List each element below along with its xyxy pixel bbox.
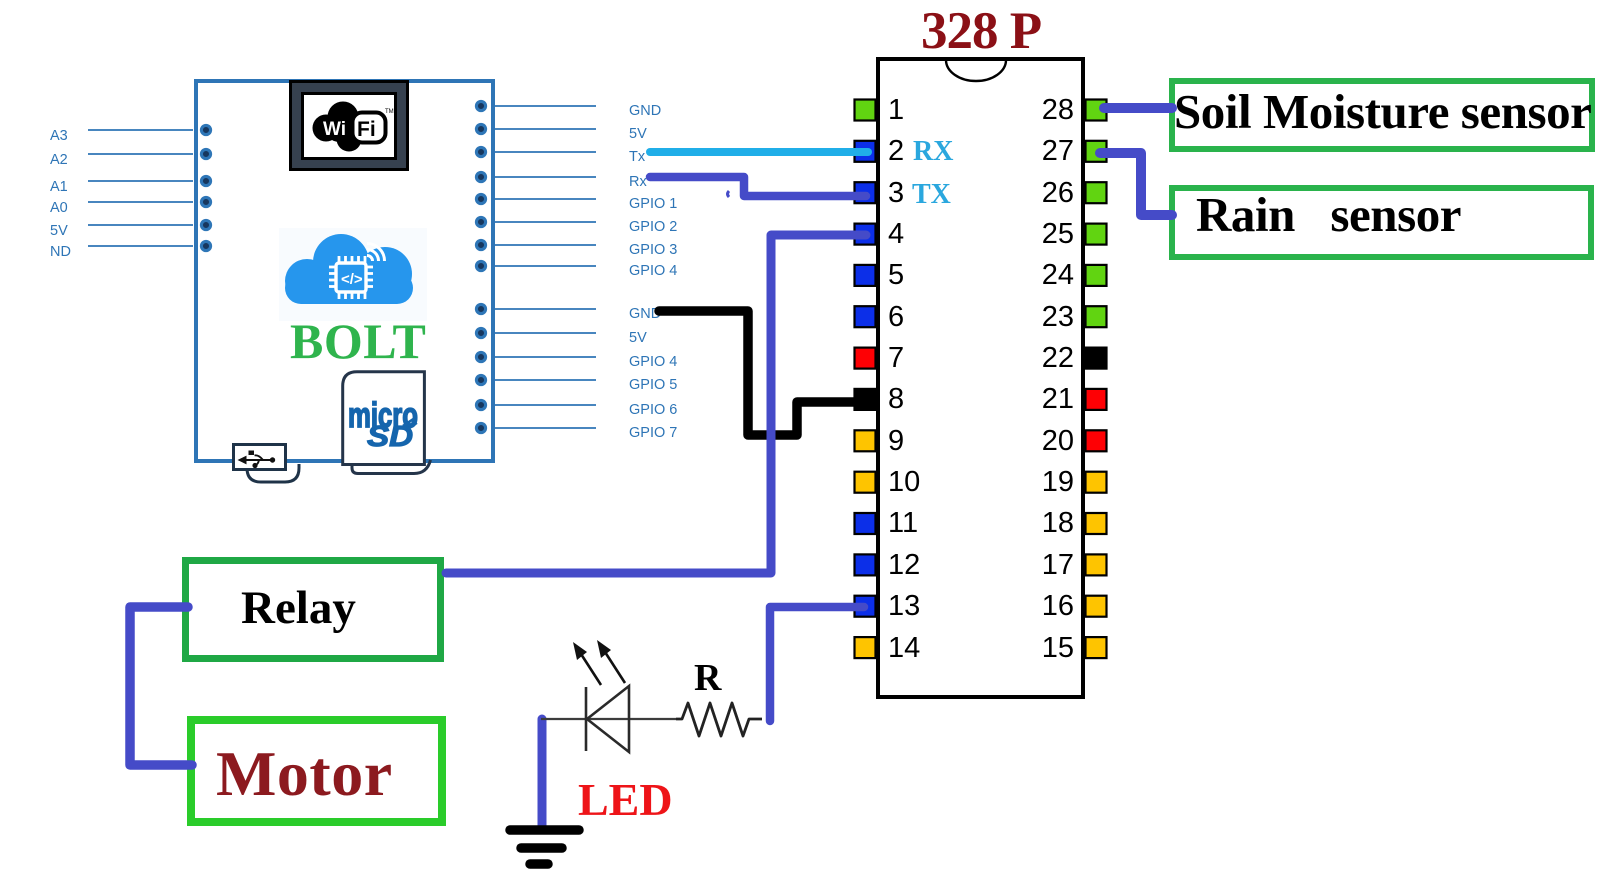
wire GND (black) board to pin 8 <box>659 311 858 435</box>
pin 22 pad <box>1086 348 1107 369</box>
pin 4 number <box>888 219 904 250</box>
pin circle A1 <box>201 176 210 185</box>
label 5V (board right) <box>629 127 647 142</box>
pin circle GPIO 3 <box>476 240 485 249</box>
label GPIO 7 (board right) <box>629 426 677 441</box>
Rain sensor text <box>1196 186 1461 243</box>
wire lead ND (board left) <box>88 245 193 247</box>
pin circle GND <box>476 304 485 313</box>
label 5V (board left) <box>50 224 68 239</box>
pin 15 number <box>1004 633 1074 664</box>
pin 10 pad <box>855 472 876 493</box>
pin circle GPIO 7 <box>476 423 485 432</box>
pin circle GPIO 5 <box>476 375 485 384</box>
pin circle ND <box>201 241 210 250</box>
label GND (board right) <box>629 307 661 322</box>
wire lead GND (board right) <box>492 105 596 107</box>
wire pin 28 to Soil Moisture sensor <box>1104 103 1172 113</box>
LED triangle <box>587 686 629 752</box>
pin 28 pad <box>1086 100 1107 121</box>
LED arrow 1 <box>581 654 601 685</box>
pin 16 pad <box>1086 596 1107 617</box>
pin 20 pad <box>1086 430 1107 451</box>
pin 2 number <box>888 136 904 167</box>
wire tick mark <box>728 191 730 197</box>
pin 14 pad <box>855 637 876 658</box>
pin 6 number <box>888 302 904 333</box>
pin circle GND <box>476 101 485 110</box>
pin circle GPIO 2 <box>476 217 485 226</box>
pin 27 pad <box>1086 141 1107 162</box>
label GPIO 5 (board right) <box>629 378 677 393</box>
pin 4 pad <box>855 224 876 245</box>
label RX <box>913 136 953 168</box>
pin 23 pad <box>1086 306 1107 327</box>
R text <box>694 656 721 700</box>
pin circle GPIO 6 <box>476 400 485 409</box>
microSD card <box>330 365 445 490</box>
pin 16 number <box>1004 591 1074 622</box>
wire lead GPIO 6 (board right) <box>492 404 596 406</box>
Rain sensor box <box>1169 185 1594 260</box>
pin 3 number <box>888 178 904 209</box>
pin 21 number <box>1004 384 1074 415</box>
pin 8 pad <box>855 389 876 410</box>
label GND (board right) <box>629 104 661 119</box>
wire lead 5V (board left) <box>88 224 193 226</box>
pin 27 number <box>1004 136 1074 167</box>
pin 6 pad <box>855 306 876 327</box>
resistor R <box>676 703 762 736</box>
Soil Moisture sensor box <box>1169 78 1595 152</box>
wire Tx (cyan) board to pin 2 <box>650 148 868 156</box>
pin 11 number <box>888 508 918 539</box>
wire lead A0 (board left) <box>88 201 193 203</box>
label GPIO 1 (board right) <box>629 197 677 212</box>
pin 25 number <box>1004 219 1074 250</box>
wire pin 4 to Relay <box>446 235 866 573</box>
pin 13 number <box>888 591 920 622</box>
pin 23 number <box>1004 302 1074 333</box>
Relay text <box>241 581 356 635</box>
BOLT module board outline <box>194 79 495 463</box>
pin 10 number <box>888 467 920 498</box>
label Tx (board right) <box>629 150 645 165</box>
pin 22 number <box>1004 343 1074 374</box>
WiFi module frame <box>289 80 409 171</box>
wire pin 13 to resistor <box>770 607 864 721</box>
pin 14 number <box>888 633 920 664</box>
pin 12 number <box>888 550 920 581</box>
pin circle A3 <box>201 125 210 134</box>
pin 9 number <box>888 426 904 457</box>
label GPIO 4 (board right) <box>629 264 677 279</box>
wire pin 27 to Rain sensor <box>1100 153 1172 215</box>
wire lead GPIO 4 (board right) <box>492 265 596 267</box>
LED text <box>578 773 673 826</box>
label Rx (board right) <box>629 175 647 190</box>
Relay box <box>182 557 444 662</box>
Soil Moisture sensor text <box>1174 83 1591 140</box>
pin 17 pad <box>1086 554 1107 575</box>
label GPIO 4 (board right) <box>629 355 677 370</box>
wire lead GPIO 7 (board right) <box>492 427 596 429</box>
label ND (board left) <box>50 245 71 260</box>
wire lead GPIO 2 (board right) <box>492 221 596 223</box>
pin circle A0 <box>201 197 210 206</box>
pin 24 pad <box>1086 265 1107 286</box>
pin 17 number <box>1004 550 1074 581</box>
BOLT wordmark <box>290 312 426 370</box>
wire lead Tx (board right) <box>492 151 596 153</box>
pin 19 number <box>1004 467 1074 498</box>
pin circle A2 <box>201 149 210 158</box>
pin circle 5V <box>201 220 210 229</box>
label A2 (board left) <box>50 153 68 168</box>
USB connector icon <box>225 438 310 490</box>
label GPIO 2 (board right) <box>629 220 677 235</box>
wire lead A1 (board left) <box>88 180 193 182</box>
wire lead A3 (board left) <box>88 129 193 131</box>
pin 1 pad <box>855 100 876 121</box>
wire lead 5V (board right) <box>492 128 596 130</box>
Motor text <box>216 737 393 811</box>
label TX <box>912 179 951 211</box>
pin 18 pad <box>1086 513 1107 534</box>
pin 8 number <box>888 384 904 415</box>
pin circle GPIO 4 <box>476 261 485 270</box>
pin circle Rx <box>476 172 485 181</box>
LED cathode bar <box>585 687 588 751</box>
pin circle GPIO 4 <box>476 352 485 361</box>
wire lead GPIO 5 (board right) <box>492 379 596 381</box>
wire lead A2 (board left) <box>88 153 193 155</box>
pin 7 pad <box>855 348 876 369</box>
wire lead GND (board right) <box>492 308 596 310</box>
LED arrow 2 <box>605 652 625 683</box>
pin 13 pad <box>855 596 876 617</box>
ground symbol <box>510 830 579 864</box>
pin 15 pad <box>1086 637 1107 658</box>
pin 21 pad <box>1086 389 1107 410</box>
pin circle 5V <box>476 328 485 337</box>
LED lead line <box>541 718 676 720</box>
pin 19 pad <box>1086 472 1107 493</box>
wire lead Rx (board right) <box>492 176 596 178</box>
pin 12 pad <box>855 554 876 575</box>
pin 5 pad <box>855 265 876 286</box>
pin 20 number <box>1004 426 1074 457</box>
wire LED cathode to ground <box>538 719 547 828</box>
pin 25 pad <box>1086 224 1107 245</box>
pin 24 number <box>1004 260 1074 291</box>
label A1 (board left) <box>50 180 68 195</box>
pin circle GPIO 1 <box>476 194 485 203</box>
chip notch <box>946 60 1006 81</box>
label 5V (board right) <box>629 331 647 346</box>
wire lead GPIO 3 (board right) <box>492 244 596 246</box>
pin 5 number <box>888 260 904 291</box>
label GPIO 6 (board right) <box>629 403 677 418</box>
wire lead 5V (board right) <box>492 332 596 334</box>
chip title 328 P <box>921 1 1041 61</box>
pin 18 number <box>1004 508 1074 539</box>
wire lead GPIO 4 (board right) <box>492 356 596 358</box>
pin circle 5V <box>476 124 485 133</box>
Motor box <box>187 716 446 826</box>
pin 26 number <box>1004 178 1074 209</box>
pin 26 pad <box>1086 182 1107 203</box>
wire Relay to Motor <box>130 607 192 765</box>
WiFi logo <box>304 95 394 157</box>
pin 28 number <box>1004 95 1074 126</box>
label A0 (board left) <box>50 201 68 216</box>
wire Rx (blue) board to pin 3 <box>650 177 866 196</box>
Bolt cloud logo <box>279 228 427 321</box>
pin 3 pad <box>855 182 876 203</box>
pin 2 pad <box>855 141 876 162</box>
pin circle Tx <box>476 147 485 156</box>
pin 9 pad <box>855 430 876 451</box>
pin 1 number <box>888 95 904 126</box>
label A3 (board left) <box>50 129 68 144</box>
pin 11 pad <box>855 513 876 534</box>
wire lead GPIO 1 (board right) <box>492 198 596 200</box>
328P chip body <box>876 57 1085 699</box>
pin 7 number <box>888 343 904 374</box>
label GPIO 3 (board right) <box>629 243 677 258</box>
